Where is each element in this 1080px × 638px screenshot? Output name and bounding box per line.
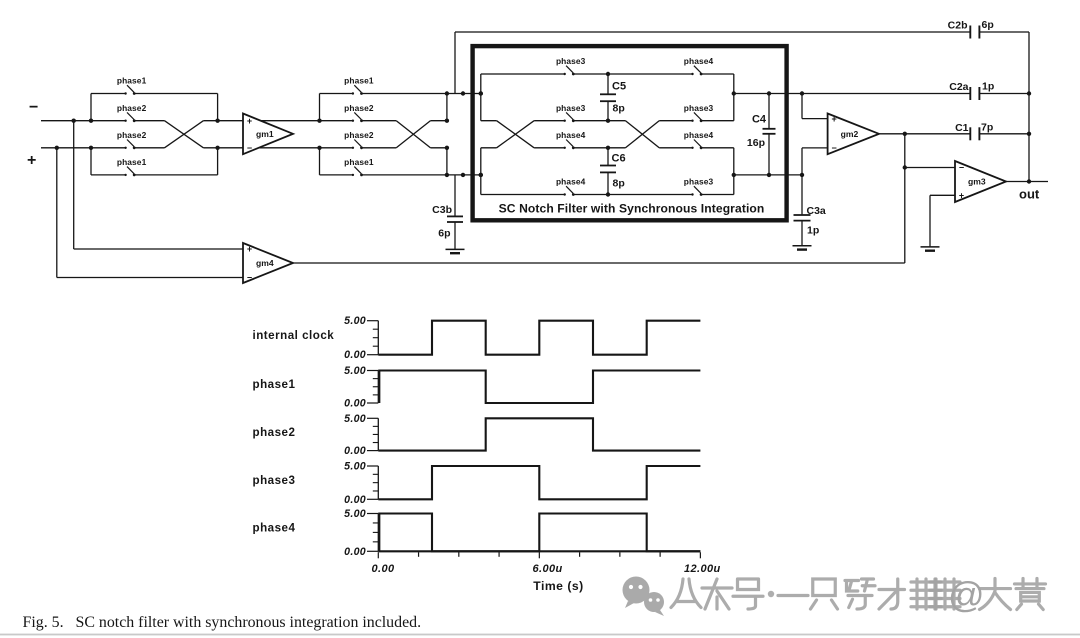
waveform row phase2: [253, 413, 701, 457]
wire gm2 output drop: [904, 134, 906, 263]
svg-text:5.00: 5.00: [344, 365, 366, 377]
svg-text:phase3: phase3: [556, 56, 586, 66]
svg-text:phase4: phase4: [556, 177, 586, 187]
wire bottom branch: [320, 174, 353, 176]
watermark wechat icon: [623, 577, 665, 617]
node bottom branch junction: [445, 173, 449, 177]
node output rail C2a: [1027, 91, 1031, 95]
watermark text: [671, 574, 1046, 615]
node rail junction: [445, 119, 449, 123]
svg-text:−: −: [959, 163, 964, 173]
wire top branch: [320, 93, 353, 95]
svg-text:phase2: phase2: [253, 426, 296, 439]
svg-text:−: −: [831, 143, 836, 153]
box SC Notch Filter border: [473, 46, 787, 220]
node top branch junction: [461, 91, 465, 95]
wire gm4 plus horizontal: [74, 248, 243, 250]
switch box mid-right phase3: [684, 103, 714, 122]
svg-text:+: +: [27, 152, 36, 169]
switch bank2 lower phase2: [344, 130, 374, 149]
node gm4 plus tap: [72, 119, 76, 123]
wire bottom branch: [362, 174, 447, 176]
svg-text:6p: 6p: [982, 19, 994, 31]
node output rail C1: [1027, 132, 1031, 136]
svg-text:SC Notch Filter with Synchrono: SC Notch Filter with Synchronous Integra…: [499, 202, 765, 216]
wire box right crossover: [626, 121, 660, 148]
svg-text:gm1: gm1: [256, 129, 274, 139]
wire gm3 output: [1006, 181, 1048, 183]
wire upper rail: [134, 120, 164, 122]
capacitor C2b 6p: [970, 26, 979, 39]
svg-text:gm4: gm4: [256, 258, 274, 268]
svg-text:C1: C1: [955, 122, 969, 134]
switch box upper-right phase4: [684, 56, 714, 75]
wire crossover bank2: [396, 121, 430, 148]
wire box upper branch: [573, 73, 692, 75]
capacitor C1 7p: [970, 127, 979, 140]
wire lower rail: [430, 147, 447, 149]
node rail junction: [317, 146, 321, 150]
wire bracket bank2 left lower: [319, 148, 321, 175]
wire lower rail: [41, 147, 126, 149]
wire box lower mid: [659, 147, 692, 149]
wire box left crossover: [497, 121, 534, 148]
node rail junction: [89, 146, 93, 150]
svg-text:0.00: 0.00: [344, 445, 366, 457]
node C5-C6 column junction: [606, 146, 610, 150]
wire bracket bank1 right lower: [217, 148, 219, 175]
wire output rail: [1028, 32, 1030, 182]
svg-text:6p: 6p: [438, 228, 450, 240]
switch box lower-right phase3: [684, 177, 714, 196]
wire gm2 minus vertical: [801, 148, 803, 175]
svg-text:+: +: [247, 116, 252, 126]
node rail junction: [445, 146, 449, 150]
svg-text:+: +: [831, 114, 836, 124]
node C4 top: [767, 91, 771, 95]
capacitor C4 16p: [763, 94, 776, 175]
wire bracket bank2 right lower: [446, 148, 448, 175]
svg-text:−: −: [247, 143, 252, 153]
wire box lower mid: [481, 147, 497, 149]
svg-text:0.00: 0.00: [372, 563, 395, 575]
capacitor C3a 1p: [794, 175, 811, 246]
wire box upper mid: [701, 120, 734, 122]
wire upper rail: [41, 120, 126, 122]
svg-text:phase4: phase4: [556, 130, 586, 140]
node gm3 minus junction: [903, 165, 907, 169]
waveform row phase3: [253, 461, 701, 506]
wire top branch: [362, 93, 447, 95]
svg-text:internal clock: internal clock: [253, 329, 335, 342]
wire bracket bank1 left lower: [90, 148, 92, 175]
wire lower rail: [362, 147, 397, 149]
wire box right bracket lower: [733, 148, 735, 195]
wire box upper branch: [701, 73, 734, 75]
wire gm3 plus horizontal: [930, 194, 955, 196]
svg-text:16p: 16p: [747, 137, 765, 149]
wire gm4 minus horizontal: [57, 277, 243, 279]
wire box right bracket upper: [733, 74, 735, 121]
node rail junction: [215, 119, 219, 123]
node output rail out: [1027, 179, 1031, 183]
switch bank1 upper phase2: [117, 103, 147, 122]
wire bracket bank2 right upper: [446, 94, 448, 121]
capacitor C6 8p: [600, 148, 616, 195]
svg-text:5.00: 5.00: [344, 315, 366, 327]
ground gm3: [921, 247, 940, 251]
node box bracket junction: [732, 173, 736, 177]
op-amp gm3: [955, 161, 1006, 202]
capacitor C3b 6p: [447, 175, 463, 249]
wire crossover bank2: [396, 121, 430, 148]
switch box mid-left phase4: [556, 130, 586, 149]
wire box upper mid: [659, 120, 692, 122]
wire box lower branch: [573, 194, 692, 196]
svg-text:phase3: phase3: [684, 177, 714, 187]
wire C2a to output rail: [979, 93, 1029, 95]
wire bracket bank2 left upper: [319, 94, 321, 121]
op-amp gm1: [243, 114, 293, 155]
svg-text:5.00: 5.00: [344, 413, 366, 425]
svg-text:phase2: phase2: [117, 103, 147, 113]
node C5-C6 column junction: [606, 192, 610, 196]
svg-text:C6: C6: [612, 153, 626, 165]
wire top branch: [134, 93, 217, 95]
wire box lower branch: [701, 194, 734, 196]
op-amp gm4: [243, 243, 293, 283]
node rail junction: [89, 119, 93, 123]
svg-text:C3a: C3a: [807, 205, 826, 217]
capacitor C2a 1p: [970, 87, 979, 100]
bottom edge line: [0, 634, 1080, 636]
switch box mid-left phase3: [556, 103, 586, 122]
svg-text:1p: 1p: [982, 81, 994, 93]
node rail junction: [215, 146, 219, 150]
wire crossover bank1: [165, 121, 204, 148]
node gm2 output junction: [903, 132, 907, 136]
svg-text:phase3: phase3: [253, 474, 296, 487]
waveform x-axis: [372, 551, 721, 593]
svg-text:0.00: 0.00: [344, 349, 366, 361]
svg-text:gm3: gm3: [968, 177, 986, 187]
svg-text:8p: 8p: [613, 103, 625, 115]
wire box left crossover: [497, 121, 534, 148]
node box bracket junction: [479, 91, 483, 95]
svg-text:Fig. 5. SC notch filter with: Fig. 5. SC notch filter with synchronous…: [23, 614, 422, 631]
wire bracket bank1 left upper: [90, 94, 92, 121]
svg-text:C3b: C3b: [432, 204, 452, 216]
wire C1 to output rail: [979, 133, 1029, 135]
wire upper rail: [430, 120, 447, 122]
node C5-C6 column junction: [606, 72, 610, 76]
wire bottom rail out of box: [734, 174, 802, 176]
svg-text:0.00: 0.00: [344, 546, 366, 558]
wire C2b top horizontal: [455, 31, 970, 33]
switch bank2 bottom phase1: [344, 157, 374, 176]
svg-text:phase2: phase2: [344, 130, 374, 140]
wire box upper branch: [481, 73, 565, 75]
wire feedback to gm4 output: [293, 262, 905, 264]
node rail junction: [317, 119, 321, 123]
node gm2 plus tap: [800, 91, 804, 95]
switch bank1 top phase1: [117, 76, 147, 95]
waveform row internal clock: [253, 315, 701, 361]
svg-text:gm2: gm2: [841, 129, 859, 139]
switch bank1 lower phase2: [117, 130, 147, 149]
node C5-C6 column junction: [606, 119, 610, 123]
svg-text:6.00u: 6.00u: [533, 563, 563, 575]
svg-text:+: +: [959, 190, 964, 200]
wire C2b to output rail: [979, 31, 1029, 33]
svg-text:5.00: 5.00: [344, 461, 366, 473]
wire gm3 plus vertical: [929, 195, 931, 246]
wire gm2 output to C1: [879, 133, 970, 135]
svg-text:phase3: phase3: [556, 103, 586, 113]
wire upper rail: [362, 120, 397, 122]
svg-text:Time (s): Time (s): [533, 579, 584, 593]
node bottom branch junction: [479, 173, 483, 177]
svg-text:phase4: phase4: [684, 130, 714, 140]
waveform row phase4: [253, 508, 701, 558]
wire gm4 plus vertical: [73, 121, 75, 249]
wire gm4 minus vertical: [56, 148, 58, 278]
node top branch junction: [445, 91, 449, 95]
wire box upper mid: [481, 120, 497, 122]
wire gm2 minus horizontal: [802, 147, 828, 149]
svg-text:5.00: 5.00: [344, 508, 366, 520]
wire box lower mid: [534, 147, 565, 149]
svg-text:phase2: phase2: [344, 103, 374, 113]
svg-text:0.00: 0.00: [344, 494, 366, 506]
svg-text:phase1: phase1: [117, 76, 147, 86]
svg-text:phase1: phase1: [344, 157, 374, 167]
switch box upper-left phase3: [556, 56, 586, 75]
wire bracket bank1 right upper: [217, 94, 219, 121]
svg-text:phase2: phase2: [117, 130, 147, 140]
switch box lower-left phase4: [556, 177, 586, 196]
ground C3a: [793, 246, 812, 250]
svg-text:C5: C5: [612, 81, 626, 93]
wire gm2 plus vertical: [801, 94, 803, 119]
switch bank2 upper phase2: [344, 103, 374, 122]
svg-text:−: −: [29, 99, 38, 116]
svg-text:phase4: phase4: [253, 522, 296, 535]
svg-text:phase1: phase1: [253, 378, 296, 391]
wire gm3 minus: [905, 167, 955, 169]
svg-text:phase1: phase1: [344, 76, 374, 86]
ground C3b: [446, 249, 465, 253]
wire box lower mid: [573, 147, 625, 149]
wire C2b riser: [454, 32, 456, 94]
wire bottom branch: [447, 174, 481, 176]
svg-text:C4: C4: [752, 114, 767, 126]
node box bracket junction: [479, 173, 483, 177]
wire top rail to C2a: [734, 93, 971, 95]
wire box upper mid: [573, 120, 625, 122]
wire box left bracket lower: [480, 148, 482, 195]
wire lower rail: [134, 147, 164, 149]
svg-text:+: +: [247, 244, 252, 254]
wire crossover bank1: [165, 121, 204, 148]
svg-text:C2b: C2b: [948, 20, 968, 32]
svg-text:8p: 8p: [613, 178, 625, 190]
svg-text:phase3: phase3: [684, 103, 714, 113]
wire upper rail: [203, 120, 353, 122]
node bottom branch junction: [461, 173, 465, 177]
svg-text:7p: 7p: [981, 122, 993, 134]
wire top branch: [447, 93, 481, 95]
op-amp gm2: [828, 114, 879, 155]
node gm2 minus tap: [800, 173, 804, 177]
node box bracket junction: [732, 91, 736, 95]
wire gm2 plus horizontal: [802, 118, 828, 120]
wire box right crossover: [626, 121, 660, 148]
waveform row phase1: [253, 365, 701, 410]
wire box upper mid: [534, 120, 565, 122]
svg-text:C2a: C2a: [949, 81, 968, 93]
wire bottom branch: [134, 174, 217, 176]
svg-text:out: out: [1019, 187, 1040, 202]
node gm4 minus tap: [55, 146, 59, 150]
capacitor C5 8p: [600, 74, 616, 121]
wire bottom branch: [91, 174, 126, 176]
node C4 bottom: [767, 173, 771, 177]
switch box mid-right phase4: [684, 130, 714, 149]
node top branch junction: [479, 91, 483, 95]
svg-text:−: −: [247, 273, 252, 283]
wire box lower mid: [701, 147, 734, 149]
switch bank2 top phase1: [344, 76, 374, 95]
svg-text:phase1: phase1: [117, 157, 147, 167]
switch bank1 bottom phase1: [117, 157, 147, 176]
wire lower rail: [203, 147, 353, 149]
wire box lower branch: [481, 194, 565, 196]
wire box left bracket upper: [480, 74, 482, 121]
svg-text:12.00u: 12.00u: [684, 563, 721, 575]
svg-text:phase4: phase4: [684, 56, 714, 66]
svg-text:0.00: 0.00: [344, 398, 366, 410]
wire top branch: [91, 93, 126, 95]
svg-text:1p: 1p: [807, 225, 819, 237]
